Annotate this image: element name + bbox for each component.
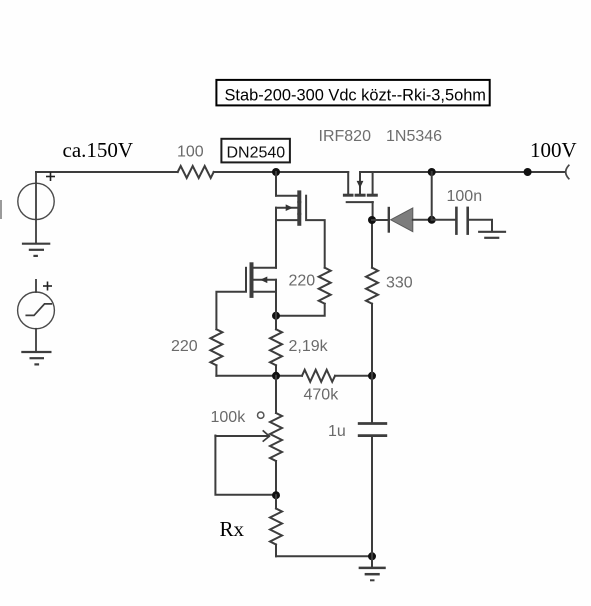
wire node E to cap 1u — [371, 376, 373, 422]
transistor Q2 (depletion NMOS, gate on left) — [216, 264, 276, 329]
source V2 — [18, 280, 55, 365]
wire node C to cap — [432, 219, 457, 221]
node top out — [524, 168, 532, 176]
svg-text:330: 330 — [386, 274, 413, 291]
resistor 2,19k — [275, 316, 277, 330]
Q3 channel bars — [344, 194, 376, 197]
ground main — [360, 556, 385, 580]
potentiometer 100k — [275, 376, 277, 413]
pot terminal circle — [258, 412, 264, 418]
resistor 220 (left) — [210, 329, 222, 365]
wire resistor to node A — [214, 171, 349, 173]
node F — [368, 552, 376, 560]
capacitor 1u — [359, 424, 386, 436]
Q1 channel bar — [297, 192, 301, 223]
Q3 bulk lead — [359, 172, 361, 194]
wire Q1 source down — [275, 220, 277, 268]
capacitor 100n — [456, 208, 467, 234]
node E — [368, 372, 376, 380]
Q1 source lead — [276, 219, 298, 221]
Q1 gate lead — [306, 220, 325, 268]
svg-text:ca.150V: ca.150V — [63, 138, 134, 162]
svg-text:220: 220 — [289, 272, 316, 289]
Q2 bulk-source tie — [275, 280, 277, 292]
transistor Q3 IRF820 (horizontal) — [344, 172, 376, 220]
pot wiper arrow — [263, 431, 269, 441]
resistor R 100 (top) — [178, 166, 214, 178]
pot wiper arm — [215, 435, 268, 437]
Q1 bulk-source tie — [275, 208, 277, 220]
Q3 drain lead — [347, 172, 349, 194]
wire 470k to node E — [335, 375, 372, 377]
resistor Rx — [275, 495, 277, 508]
Q2 gate bar — [245, 268, 247, 291]
svg-text:Stab-200-300 Vdc közt--Rki-3,5: Stab-200-300 Vdc közt--Rki-3,5ohm — [225, 86, 486, 104]
svg-text:Rx: Rx — [220, 517, 245, 541]
ground V1 — [23, 244, 49, 256]
Q2 channel bar — [250, 264, 254, 296]
label box DN2540 — [221, 139, 290, 163]
node G — [272, 491, 280, 499]
source V1 — [18, 172, 54, 256]
title box — [216, 80, 489, 106]
Q2 source lead — [253, 291, 276, 293]
ground cap — [479, 232, 505, 238]
svg-text:1u: 1u — [328, 423, 346, 440]
wire bottom row — [216, 375, 302, 377]
node Q2 source — [272, 312, 280, 320]
svg-text:100n: 100n — [447, 188, 483, 205]
wire bottom to ground node — [276, 555, 372, 557]
wire node C up to top wire — [431, 172, 433, 220]
wire node B to diode — [372, 219, 389, 221]
node C — [428, 216, 436, 224]
transistor Q1 DN2540 (depletion NMOS, gate on right) — [276, 192, 325, 267]
Q2 bulk arrow — [260, 277, 267, 284]
ground V2 — [22, 352, 50, 364]
edge artifact — [0, 201, 2, 218]
svg-text:100: 100 — [177, 144, 204, 161]
Q2 drain lead — [253, 267, 276, 269]
wire main top right — [360, 171, 565, 173]
svg-text:2,19k: 2,19k — [289, 338, 329, 355]
node top mid — [428, 168, 436, 176]
Q3 bulk arrow — [357, 181, 364, 188]
wire node A down to Q1 drain — [275, 172, 277, 196]
svg-text:1N5346: 1N5346 — [386, 128, 442, 145]
pot left arm down — [215, 436, 276, 495]
Q1 gate bar — [305, 196, 307, 219]
resistor 330 — [371, 220, 373, 268]
Q1 bulk lead — [276, 207, 298, 209]
Q3 gate lead — [372, 202, 374, 220]
diode 1N5346 (zener, cathode left) — [389, 208, 432, 232]
svg-text:DN2540: DN2540 — [227, 144, 286, 161]
Q3 source lead — [372, 172, 374, 194]
svg-text:IRF820: IRF820 — [319, 128, 372, 145]
V2 step waveform — [26, 304, 51, 316]
node A — [272, 168, 280, 176]
output terminal arc — [566, 165, 569, 178]
svg-text:470k: 470k — [304, 387, 340, 404]
Q3 gate bar — [347, 201, 373, 203]
node B gate — [368, 216, 376, 224]
Q1 drain lead — [276, 195, 298, 197]
Q2 gate lead — [216, 292, 246, 330]
Q2 bulk lead — [253, 279, 276, 281]
wire 220R bottom to node — [276, 304, 325, 316]
node bottom row — [272, 372, 280, 380]
wire cap to ground — [468, 220, 492, 231]
Q1 bulk arrow — [286, 204, 293, 211]
wire Q2 source to node — [275, 292, 277, 316]
svg-text:100V: 100V — [530, 138, 577, 162]
wire main top left — [36, 171, 178, 173]
svg-text:100k: 100k — [211, 409, 247, 426]
resistor 220 (right, gate of Q1) — [319, 268, 331, 304]
resistor 470k — [302, 370, 335, 382]
wire cap 1u to node F — [371, 437, 373, 556]
svg-text:220: 220 — [171, 338, 198, 355]
